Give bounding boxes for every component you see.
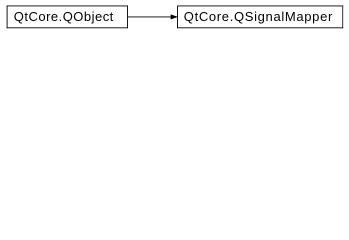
svg-text:QtCore.QObject: QtCore.QObject bbox=[14, 9, 114, 24]
inheritance diagram: QtCore.QObject -> QtCore.QSignalMapper bbox=[0, 0, 349, 36]
background bbox=[0, 0, 349, 36]
node box QtCore.QSignalMapper bbox=[177, 6, 343, 29]
node box QtCore.QObject bbox=[7, 6, 128, 29]
svg-text:QtCore.QSignalMapper: QtCore.QSignalMapper bbox=[184, 9, 333, 24]
edge arrowhead bbox=[171, 15, 177, 19]
edge wire shaft bbox=[128, 16, 171, 18]
